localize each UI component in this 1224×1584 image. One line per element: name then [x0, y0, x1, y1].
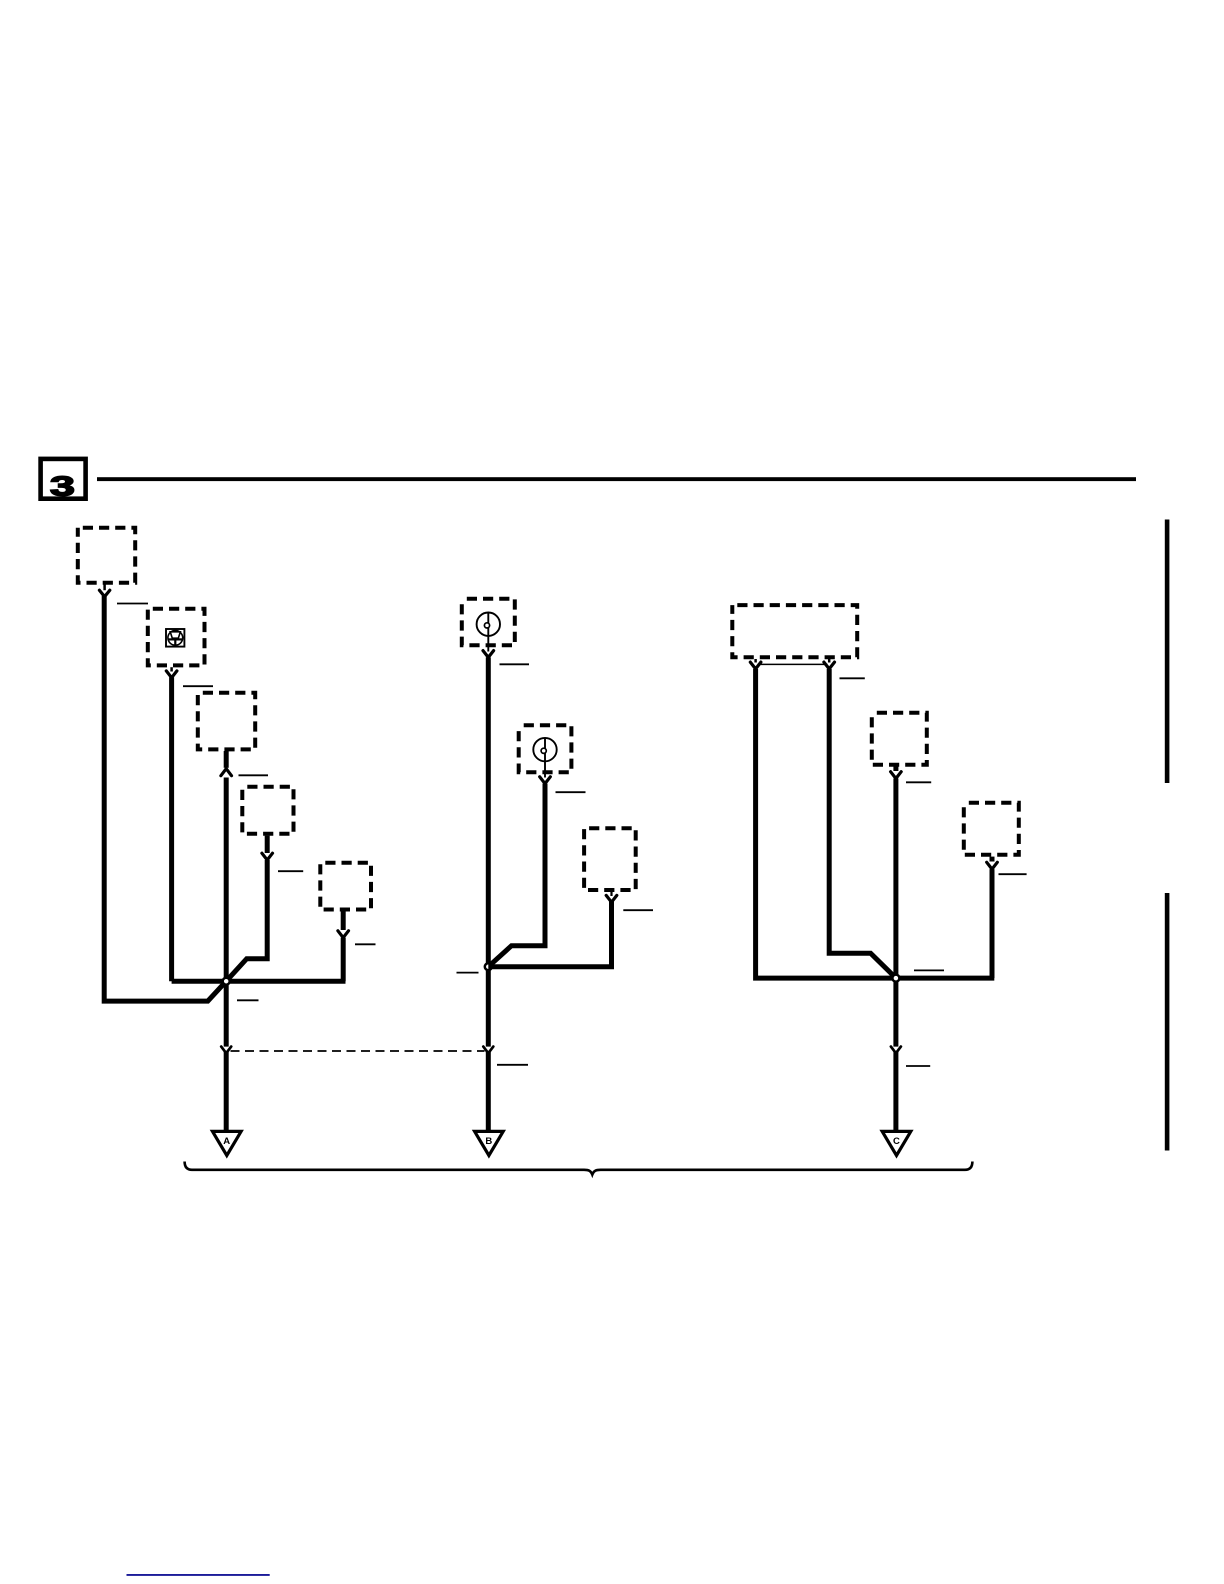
- wire label at junction A: [237, 999, 259, 1001]
- wire label B3: [623, 909, 653, 911]
- wire B1: [486, 657, 491, 1046]
- connector arrow B low: [483, 1047, 493, 1054]
- svg-text:C: C: [893, 1136, 900, 1147]
- control unit box C1: [732, 605, 857, 657]
- bottom brace bracket: [185, 1162, 973, 1175]
- junction B: [485, 963, 492, 970]
- wire A3 main vertical upper: [224, 778, 229, 1047]
- svg-text:B: B: [485, 1136, 492, 1147]
- arrow C1 left pin: [754, 659, 757, 663]
- wire C1 left: [756, 669, 995, 978]
- junction A: [223, 978, 230, 985]
- wire B2: [488, 784, 545, 967]
- blue footer rule: [127, 1574, 270, 1576]
- wire label C low: [906, 1065, 930, 1067]
- arrow B3: [610, 892, 612, 896]
- wire stub A4: [265, 836, 270, 853]
- pin tie line C1: [758, 663, 828, 665]
- svg-text:A: A: [223, 1136, 230, 1147]
- connector box A4: [242, 787, 293, 834]
- arrow A3 up: [221, 769, 232, 776]
- section number box 3: [41, 459, 86, 501]
- wire A5: [341, 938, 346, 982]
- ground G-B: [475, 1131, 504, 1155]
- arrow A4: [262, 853, 273, 860]
- arrow B1: [483, 651, 494, 658]
- svg-text:3: 3: [50, 470, 75, 501]
- wire label C3: [999, 873, 1027, 875]
- arrow B2: [540, 777, 551, 784]
- wire A2: [169, 677, 174, 981]
- horn icon in A2: [166, 629, 184, 647]
- wire C ground segment: [893, 1052, 898, 1133]
- wire label at junction C: [914, 969, 944, 971]
- lamp box B2: [519, 725, 572, 772]
- wire C1 right: [829, 669, 896, 978]
- wire label C2: [906, 781, 931, 783]
- wire C3: [990, 869, 995, 978]
- right margin bar lower: [1165, 893, 1170, 1151]
- right margin bar upper: [1165, 520, 1170, 784]
- lamp box B1: [462, 599, 515, 645]
- connector box A1: [78, 528, 135, 583]
- wire A1: [104, 596, 226, 1001]
- connector box A3: [198, 693, 255, 750]
- arrow A5: [338, 931, 349, 938]
- connector box C3: [964, 803, 1019, 855]
- wire C2: [893, 779, 898, 1047]
- bulb B2: [533, 738, 556, 778]
- dashed link wire A-B: [231, 1050, 485, 1052]
- arrow A2: [170, 667, 173, 671]
- wire label A5: [355, 943, 376, 945]
- wire stub A5: [341, 911, 346, 930]
- wire label B1: [500, 663, 530, 665]
- wire label A4: [278, 870, 303, 872]
- wire B bus to B3: [488, 901, 611, 967]
- connector arrow C low: [891, 1047, 901, 1054]
- wire label C1: [840, 677, 865, 679]
- junction C: [892, 975, 899, 982]
- connector box A2: [148, 609, 205, 666]
- arrow A1: [103, 585, 106, 591]
- ground G-C: [882, 1131, 911, 1155]
- wire label A2: [183, 685, 213, 687]
- connector box B3: [584, 828, 636, 890]
- ground G-A: [213, 1131, 242, 1155]
- wire A4: [226, 860, 267, 981]
- arrow C3: [990, 857, 995, 862]
- bulb B1: [477, 613, 500, 652]
- arrow C2: [893, 767, 898, 772]
- wire label B2: [556, 791, 586, 793]
- connector box C2: [872, 713, 927, 765]
- wire bus A horizontal: [172, 979, 346, 984]
- connector arrow A low: [221, 1047, 231, 1054]
- top rule line: [97, 477, 1136, 481]
- wire A ground segment: [224, 1052, 229, 1133]
- connector box A5: [320, 863, 371, 910]
- wire B ground segment: [486, 1052, 491, 1133]
- wire label at junction B: [457, 972, 479, 974]
- wire label A3: [239, 774, 269, 776]
- arrow C1 right pin: [828, 659, 831, 663]
- wire label A1: [117, 603, 148, 605]
- wire stub A3: [224, 751, 229, 768]
- wire label B low: [497, 1064, 528, 1066]
